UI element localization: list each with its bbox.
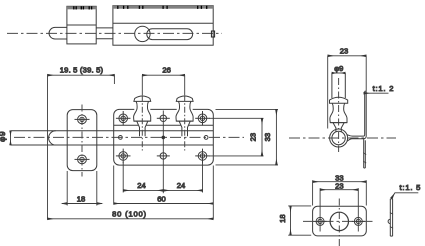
front view main plate: [114, 109, 214, 165]
bottom view screw hole right: [352, 217, 365, 225]
front view keeper hole upper: [75, 115, 90, 124]
side view guide loop ring: [330, 129, 348, 147]
dimension 33 plate height: [216, 109, 279, 164]
top view centerline: [7, 32, 222, 34]
top view travel slot: [147, 29, 193, 40]
svg-text:26: 26: [162, 66, 170, 75]
front view center dot: [162, 136, 166, 140]
top view body: [113, 6, 213, 46]
front view plate hole top-center: [157, 115, 170, 121]
dimension 18 keeper: [62, 171, 102, 206]
dimension 24 24: [123, 162, 202, 193]
front view small rivet right: [204, 136, 208, 140]
svg-text:23: 23: [340, 47, 348, 56]
svg-text:φ9: φ9: [0, 131, 7, 142]
bottom view dimension 18: [288, 206, 311, 235]
dimension 23 plate holes vertical: [209, 118, 264, 156]
side view t:1.2 label: [364, 92, 389, 94]
front view plate hole bottom-left: [116, 149, 131, 164]
top view rod stub: [96, 28, 113, 39]
bottom view dimension 33: [313, 180, 367, 205]
dimension 19.5(39.5): [48, 75, 115, 219]
bottom view plate edge strip: [388, 199, 393, 236]
dimension 80 (100): [48, 218, 214, 220]
svg-text:24: 24: [177, 181, 185, 190]
front view plate hole top-right: [195, 111, 210, 126]
svg-text:19. 5 (39. 5): 19. 5 (39. 5): [60, 66, 104, 75]
front view plate upper bend line: [114, 124, 214, 126]
svg-text:33: 33: [263, 133, 272, 141]
front view plate hole bottom-center: [157, 153, 170, 159]
front view plate vertical centerline: [162, 111, 164, 194]
bottom view rod hole: [330, 212, 348, 230]
svg-text:24: 24: [137, 181, 145, 190]
svg-text:23: 23: [249, 133, 258, 141]
bottom view vertical centerline: [338, 199, 340, 246]
side view knob: [330, 73, 348, 132]
front view rod: [11, 131, 214, 145]
front view keeper plate: [67, 110, 97, 171]
svg-text:18: 18: [77, 195, 85, 204]
front view keeper hole lower: [75, 155, 90, 164]
front view small rivet left: [119, 136, 123, 140]
side view rod circle: [332, 131, 345, 144]
side view strap: [347, 91, 366, 141]
top view rod end cap: [49, 27, 67, 39]
front view plate hole top-left: [116, 111, 131, 126]
side view dimension phi9: [332, 72, 345, 74]
dimension 26: [142, 75, 184, 95]
top view knob block edge ticks: [74, 6, 92, 9]
top view knob hole: [135, 26, 150, 41]
front view rod centerline: [14, 136, 244, 138]
top view rod right tip: [211, 31, 214, 37]
bottom view screw hole left: [314, 217, 327, 225]
bottom view horizontal centerline: [303, 220, 376, 222]
side view lower plate edge: [363, 139, 366, 168]
front view keeper centerline: [81, 105, 83, 177]
svg-text:23: 23: [335, 182, 343, 191]
svg-text:φ9: φ9: [334, 64, 343, 73]
side view dimension 23: [328, 56, 367, 129]
front view right knob: [176, 96, 193, 136]
side view vertical centerline: [338, 78, 340, 152]
svg-text:18: 18: [278, 214, 287, 222]
front view plate hole bottom-right: [195, 149, 210, 164]
front view left knob centerline: [141, 95, 143, 150]
bottom view dimension 23: [320, 188, 358, 231]
front view right knob centerline: [184, 95, 186, 150]
dimension 60: [114, 166, 214, 220]
svg-text:t:1. 2: t:1. 2: [373, 84, 395, 93]
top view body edge ticks: [118, 6, 207, 9]
svg-text:t:1. 5: t:1. 5: [400, 183, 422, 192]
bottom view t:1.5 label: [392, 193, 419, 199]
side view horizontal centerline: [289, 137, 396, 139]
top view knob block: [67, 6, 96, 44]
front view rod nose arc: [49, 131, 56, 145]
svg-text:80 (100): 80 (100): [112, 210, 147, 219]
front view left knob: [134, 96, 151, 136]
svg-text:60: 60: [157, 195, 165, 204]
bottom view plate: [313, 206, 367, 236]
